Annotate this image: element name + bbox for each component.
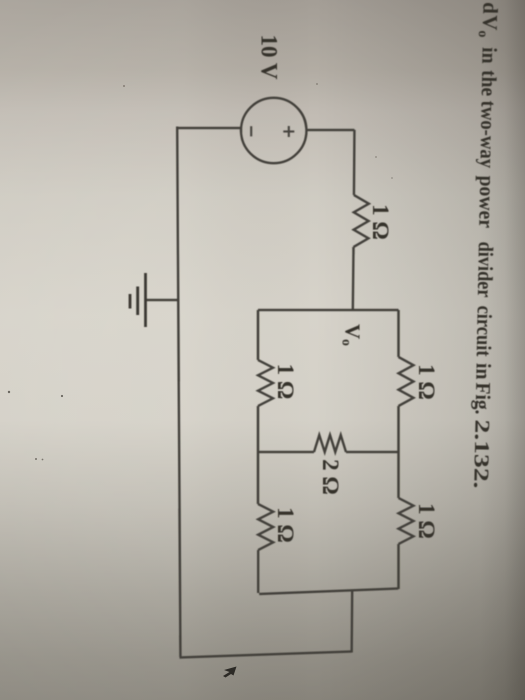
ground stem — [147, 299, 179, 301]
svg-text:in: in — [477, 47, 501, 64]
wire from source - terminal down to bottom rail — [177, 127, 241, 129]
svg-text:o: o — [475, 30, 490, 37]
resistor R3 1 ohm (top right branch) — [399, 498, 414, 544]
wire box top edge segment 2 — [397, 406, 399, 498]
right page-edge shadow band — [480, 0, 525, 700]
svg-text:Fig.: Fig. — [471, 382, 496, 414]
wire right return vertical — [180, 652, 352, 658]
ground symbol bars — [130, 273, 146, 327]
svg-text:1 Ω: 1 Ω — [414, 364, 439, 400]
svg-text:two-way: two-way — [475, 100, 500, 168]
resistor R2 1 ohm (top left branch) — [399, 357, 414, 406]
wire box bottom edge segment 3 — [257, 550, 259, 593]
svg-text:1 Ω: 1 Ω — [414, 503, 439, 539]
svg-text:power: power — [474, 175, 499, 228]
wire top rail left segment — [353, 130, 356, 195]
wire box bottom edge segment 2 — [257, 406, 259, 504]
wire box top edge segment 1 — [397, 310, 399, 357]
resistor R6 2 ohm (middle bridge) — [314, 435, 346, 452]
wire riser from source + terminal to top rail — [306, 129, 354, 131]
wire box bottom edge segment 1 — [257, 310, 259, 360]
dust specks — [8, 391, 10, 393]
wire top rail right segment to node A — [352, 247, 355, 310]
svg-text:d: d — [478, 2, 502, 14]
svg-text:in: in — [471, 363, 495, 380]
wire middle bus upper segment — [346, 451, 399, 453]
wire box top edge segment 3 — [397, 544, 399, 589]
svg-text:V: V — [478, 15, 502, 31]
svg-text:10 V: 10 V — [257, 35, 282, 80]
svg-text:2 Ω: 2 Ω — [318, 459, 343, 495]
caption text — [466, 2, 502, 489]
wire bottom return rail — [177, 127, 180, 658]
plus sign of source — [283, 130, 294, 132]
resistor R4 1 ohm (bottom left branch) — [258, 360, 273, 406]
circuit drawn in book coordinates (700x525), rotated 90deg CW — [130, 2, 503, 658]
wire middle bus lower segment — [258, 451, 314, 453]
svg-text:circuit: circuit — [472, 305, 497, 356]
cursor arrow — [223, 667, 237, 678]
node A: left bus of divider network — [258, 309, 399, 311]
svg-text:2.132.: 2.132. — [469, 419, 494, 488]
wire return horizontal from node B — [351, 590, 354, 653]
svg-text:divider: divider — [473, 241, 498, 297]
node B: right bus of divider network — [259, 589, 398, 595]
resistor R5 1 ohm (bottom right branch) — [258, 504, 273, 550]
svg-text:1 Ω: 1 Ω — [273, 364, 298, 400]
svg-text:1 Ω: 1 Ω — [273, 507, 298, 543]
minus sign of source — [250, 126, 252, 136]
voltage source V1 10V circle — [241, 98, 306, 163]
resistor R1 1 ohm (series feed) — [354, 195, 369, 247]
svg-text:the: the — [477, 70, 501, 96]
svg-text:1 Ω: 1 Ω — [368, 204, 393, 240]
